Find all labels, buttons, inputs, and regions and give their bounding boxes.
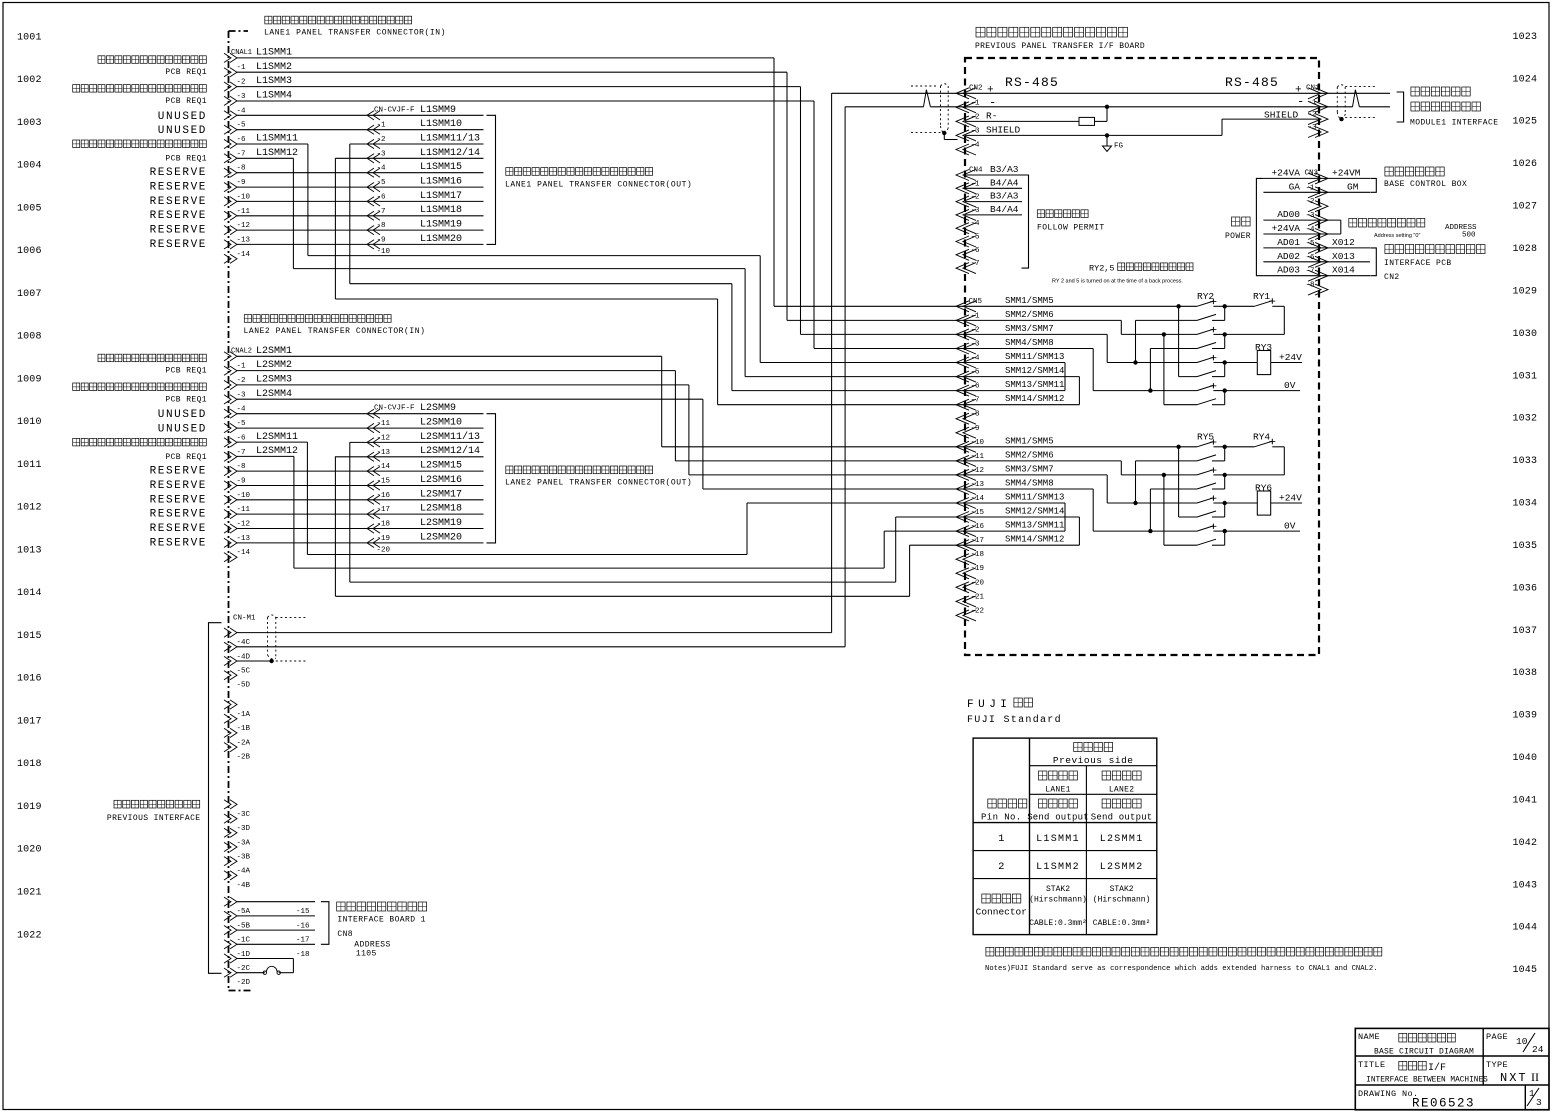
svg-text:-2: -2 bbox=[971, 113, 980, 121]
svg-text:RS-485: RS-485 bbox=[1005, 75, 1059, 90]
svg-text:-3: -3 bbox=[971, 127, 981, 135]
connector CN-M1 pin arrows bbox=[224, 628, 237, 637]
svg-text:I/F: I/F bbox=[1428, 1062, 1446, 1074]
CN3 left wires +24VA GA AD00..AD03 bbox=[1263, 177, 1319, 179]
svg-text:-13: -13 bbox=[971, 481, 985, 489]
svg-text:LANE1 PANEL TRANSFER CONNECTOR: LANE1 PANEL TRANSFER CONNECTOR(OUT) bbox=[505, 180, 692, 189]
svg-text:UNUSED: UNUSED bbox=[158, 125, 207, 137]
wire net L1SMM11/13 to CN5-6 bbox=[349, 144, 351, 284]
svg-text:L2SMM1: L2SMM1 bbox=[256, 346, 292, 357]
svg-text:RESERVE: RESERVE bbox=[150, 196, 207, 208]
shield drain junction at CN1 bbox=[1339, 117, 1343, 121]
svg-text:-5: -5 bbox=[1306, 240, 1316, 248]
svg-text:-5: -5 bbox=[971, 234, 981, 242]
svg-text:L2SMM1: L2SMM1 bbox=[1100, 834, 1144, 845]
svg-text:TYPE: TYPE bbox=[1486, 1060, 1508, 1070]
svg-text:RESERVE: RESERVE bbox=[150, 480, 207, 492]
svg-text:X013: X013 bbox=[1332, 251, 1355, 262]
svg-text:SMM4/SMM8: SMM4/SMM8 bbox=[1005, 479, 1054, 489]
svg-text:Previous side: Previous side bbox=[1053, 755, 1134, 766]
svg-text:-22: -22 bbox=[971, 607, 985, 615]
svg-text:INTERFACE BOARD 1: INTERFACE BOARD 1 bbox=[337, 916, 425, 925]
svg-text:-15: -15 bbox=[377, 478, 391, 486]
svg-text:SMM12/SMM14: SMM12/SMM14 bbox=[1005, 366, 1064, 376]
svg-text:-1: -1 bbox=[971, 99, 981, 107]
svg-text:SMM13/SMM11: SMM13/SMM11 bbox=[1005, 521, 1064, 531]
svg-text:-12: -12 bbox=[971, 467, 985, 475]
svg-text:-1: -1 bbox=[237, 64, 247, 72]
svg-text:-14: -14 bbox=[377, 463, 391, 471]
svg-text:-6: -6 bbox=[971, 247, 981, 255]
svg-text:1029: 1029 bbox=[1513, 286, 1538, 297]
svg-text:-14: -14 bbox=[971, 495, 985, 503]
svg-text:-3: -3 bbox=[971, 207, 981, 215]
svg-text:1033: 1033 bbox=[1513, 456, 1538, 467]
svg-text:1024: 1024 bbox=[1513, 74, 1538, 85]
svg-text:L2SMM15: L2SMM15 bbox=[420, 461, 462, 472]
label PREVIOUS INTERFACE (JP) bbox=[114, 800, 121, 808]
label POWER (JP) bbox=[1232, 217, 1240, 226]
wire CN5 -14 to -16 loop bbox=[965, 502, 1065, 504]
lane2 IN title (JP) bbox=[244, 315, 251, 323]
svg-text:CN3: CN3 bbox=[1305, 170, 1319, 178]
table row connector (JP) bbox=[982, 894, 990, 903]
svg-text:SMM12/SMM14: SMM12/SMM14 bbox=[1005, 507, 1064, 517]
svg-text:CN-CVJF-F: CN-CVJF-F bbox=[374, 405, 415, 413]
svg-text:+24VM: +24VM bbox=[1332, 167, 1361, 178]
svg-text:-11: -11 bbox=[237, 208, 251, 216]
wire net L2SMM12/14 to CN5-17 bbox=[334, 456, 336, 596]
svg-text:L1SMM3: L1SMM3 bbox=[256, 76, 292, 87]
svg-text:1041: 1041 bbox=[1513, 796, 1538, 807]
svg-text:1022: 1022 bbox=[17, 930, 42, 941]
svg-text:1034: 1034 bbox=[1513, 499, 1538, 510]
svg-text:1023: 1023 bbox=[1513, 32, 1538, 43]
svg-text:0V: 0V bbox=[1284, 521, 1296, 532]
svg-text:X012: X012 bbox=[1332, 237, 1355, 248]
CN3 right wires X012 X013 X014 bbox=[1319, 247, 1370, 249]
svg-text:L1SMM10: L1SMM10 bbox=[420, 119, 462, 130]
svg-text:TITLE: TITLE bbox=[1358, 1060, 1386, 1070]
svg-text:1018: 1018 bbox=[17, 759, 42, 770]
svg-text:-5: -5 bbox=[237, 420, 247, 428]
svg-text:INTERFACE PCB: INTERFACE PCB bbox=[1384, 259, 1452, 268]
svg-text:1001: 1001 bbox=[17, 32, 42, 43]
connector CN-CVJF-F lane1 pin arrows bbox=[367, 111, 380, 120]
lane2 OUT connector bracket bbox=[487, 414, 496, 543]
lane2 CN-CVJF-F signal wires bbox=[367, 413, 484, 415]
svg-text:(Hirschmann): (Hirschmann) bbox=[1093, 896, 1151, 905]
svg-text:-15: -15 bbox=[971, 509, 985, 517]
wire CN-M1 -2D with coil symbol bbox=[237, 972, 265, 974]
svg-text:PREVIOUS INTERFACE: PREVIOUS INTERFACE bbox=[107, 814, 201, 823]
svg-text:RESERVE: RESERVE bbox=[150, 225, 207, 237]
svg-text:-9: -9 bbox=[971, 425, 980, 433]
table header Send output lane2 (JP) bbox=[1102, 799, 1110, 808]
svg-text:UNUSED: UNUSED bbox=[158, 409, 207, 421]
lane1 OUT connector bracket bbox=[487, 115, 496, 244]
svg-text:PCB REQ1: PCB REQ1 bbox=[165, 453, 207, 462]
wire net L1SMM12 to CN5-5 bbox=[237, 157, 293, 159]
svg-text:1002: 1002 bbox=[17, 75, 42, 86]
svg-text:-2: -2 bbox=[1306, 198, 1315, 206]
svg-text:-4B: -4B bbox=[237, 882, 251, 890]
svg-text:GA: GA bbox=[1289, 181, 1301, 192]
svg-text:1028: 1028 bbox=[1513, 244, 1538, 255]
svg-text:L2SMM11: L2SMM11 bbox=[256, 432, 298, 443]
svg-text:1045: 1045 bbox=[1513, 965, 1538, 976]
svg-text:PAGE: PAGE bbox=[1486, 1032, 1508, 1042]
wire CN-M1 -5C shield drain bbox=[237, 660, 272, 662]
svg-text:-10: -10 bbox=[377, 248, 391, 256]
svg-text:+24V: +24V bbox=[1279, 352, 1302, 363]
svg-text:-8: -8 bbox=[377, 222, 386, 230]
svg-text:LANE2 PANEL TRANSFER CONNECTOR: LANE2 PANEL TRANSFER CONNECTOR(IN) bbox=[244, 327, 426, 336]
svg-text:+24V: +24V bbox=[1279, 493, 1302, 504]
label INTERFACE PCB CN2 (JP) bbox=[1385, 245, 1393, 254]
svg-text:FUJI: FUJI bbox=[967, 699, 1011, 711]
svg-text:MODULE1 INTERFACE: MODULE1 INTERFACE bbox=[1410, 119, 1498, 128]
svg-text:L1SMM18: L1SMM18 bbox=[420, 205, 462, 216]
connector dash-dot boundary line (CNAL1/CNAL2/CN-M1) bbox=[229, 30, 249, 32]
svg-text:10: 10 bbox=[1516, 1036, 1528, 1047]
svg-text:1015: 1015 bbox=[17, 631, 42, 642]
bracket PREVIOUS INTERFACE bbox=[209, 623, 222, 974]
svg-text:-4A: -4A bbox=[237, 868, 251, 876]
svg-text:-10: -10 bbox=[971, 439, 985, 447]
svg-text:B4/A4: B4/A4 bbox=[990, 177, 1019, 188]
svg-text:-7: -7 bbox=[1306, 268, 1315, 276]
svg-text:1004: 1004 bbox=[17, 161, 42, 172]
svg-text:-3A: -3A bbox=[237, 839, 251, 847]
svg-text:L1SMM17: L1SMM17 bbox=[420, 191, 462, 202]
svg-text:-2: -2 bbox=[971, 326, 980, 334]
svg-text:CN4: CN4 bbox=[969, 167, 983, 175]
table header Previous side (JP) bbox=[1074, 743, 1082, 752]
svg-text:1009: 1009 bbox=[17, 374, 42, 385]
svg-text:SMM14/SMM12: SMM14/SMM12 bbox=[1005, 535, 1064, 545]
svg-text:1043: 1043 bbox=[1513, 880, 1538, 891]
svg-text:PREVIOUS PANEL TRANSFER I/F BO: PREVIOUS PANEL TRANSFER I/F BOARD bbox=[975, 42, 1145, 51]
svg-text:L2SMM3: L2SMM3 bbox=[256, 375, 292, 386]
svg-text:-14: -14 bbox=[237, 549, 251, 557]
svg-text:PCB REQ1: PCB REQ1 bbox=[165, 68, 207, 77]
wire net L1SMM3 to CN5-2 bbox=[237, 86, 801, 88]
svg-text:SMM1/SMM5: SMM1/SMM5 bbox=[1005, 436, 1054, 446]
svg-text:1030: 1030 bbox=[1513, 329, 1538, 340]
svg-text:RESERVE: RESERVE bbox=[150, 494, 207, 506]
svg-text:1010: 1010 bbox=[17, 417, 42, 428]
svg-text:+24VA: +24VA bbox=[1271, 167, 1300, 178]
svg-text:1005: 1005 bbox=[17, 203, 42, 214]
svg-text:L1SMM9: L1SMM9 bbox=[420, 105, 456, 116]
svg-text:1008: 1008 bbox=[17, 332, 42, 343]
svg-text:1036: 1036 bbox=[1513, 583, 1538, 594]
svg-text:L2SMM10: L2SMM10 bbox=[420, 418, 462, 429]
svg-text:-1: -1 bbox=[971, 180, 981, 188]
bracket FOLLOW PERMIT bbox=[1022, 175, 1029, 268]
wire net L1SMM12/14 to CN5-7 bbox=[334, 158, 336, 299]
label MODULE1 INTERFACE (JP) bbox=[1411, 87, 1419, 96]
svg-text:L1SMM12: L1SMM12 bbox=[256, 148, 298, 159]
svg-text:1105: 1105 bbox=[356, 950, 377, 959]
lane1 OUT title (JP) bbox=[506, 168, 513, 176]
resistor R (RS-485 termination) bbox=[1079, 117, 1095, 125]
I/F board dashed box bbox=[965, 58, 1319, 655]
svg-text:-8: -8 bbox=[237, 463, 246, 471]
svg-text:FOLLOW PERMIT: FOLLOW PERMIT bbox=[1037, 224, 1105, 233]
svg-text:-4: -4 bbox=[237, 406, 247, 414]
wire CN5 -5 to -7 loop bbox=[965, 376, 1079, 378]
wire net CN-M1 -4D to RS-485 - bbox=[237, 646, 845, 648]
wire RS-485 + (CN2 to CN1) bbox=[832, 92, 1390, 94]
svg-text:-6: -6 bbox=[971, 383, 981, 391]
relay RY2 input wires bbox=[965, 305, 1197, 307]
svg-text:-6: -6 bbox=[1306, 254, 1316, 262]
svg-text:STAK2: STAK2 bbox=[1110, 885, 1134, 894]
svg-text:RY4: RY4 bbox=[1253, 431, 1270, 442]
svg-text:AD02: AD02 bbox=[1277, 251, 1300, 262]
svg-text:CNAL2: CNAL2 bbox=[231, 347, 252, 355]
svg-text:-16: -16 bbox=[377, 492, 391, 500]
svg-text:INTERFACE BETWEEN MACHINES: INTERFACE BETWEEN MACHINES bbox=[1366, 1077, 1488, 1085]
svg-text:RY 2 and 5 is turned on at the: RY 2 and 5 is turned on at the time of a… bbox=[1052, 279, 1183, 285]
svg-text:-2: -2 bbox=[377, 136, 386, 144]
svg-text:-3: -3 bbox=[377, 150, 387, 158]
svg-text:X014: X014 bbox=[1332, 265, 1355, 276]
svg-text:L1SMM12/14: L1SMM12/14 bbox=[420, 147, 480, 159]
svg-text:L2SMM16: L2SMM16 bbox=[420, 475, 462, 486]
svg-text:LANE1: LANE1 bbox=[1045, 786, 1071, 795]
svg-text:L2SMM9: L2SMM9 bbox=[420, 403, 456, 414]
bracket INTERFACE BOARD 1 bbox=[321, 902, 329, 945]
svg-text:-5: -5 bbox=[237, 122, 247, 130]
svg-text:SMM1/SMM5: SMM1/SMM5 bbox=[1005, 296, 1054, 306]
coil symbol on CN-M1 -2D bbox=[263, 971, 266, 974]
wire net L2SMM4 to CN5-13 bbox=[237, 398, 703, 400]
svg-text:-1B: -1B bbox=[237, 725, 251, 733]
svg-text:-19: -19 bbox=[377, 535, 391, 543]
svg-text:Send output: Send output bbox=[1027, 813, 1089, 823]
svg-text:1016: 1016 bbox=[17, 674, 42, 685]
svg-text:-13: -13 bbox=[377, 449, 391, 457]
svg-text:-4: -4 bbox=[1306, 226, 1316, 234]
table header LANE1 (JP) bbox=[1039, 771, 1047, 780]
svg-text:L2SMM2: L2SMM2 bbox=[256, 360, 292, 371]
relay RY5 input wires bbox=[965, 446, 1197, 448]
svg-text:SMM2/SMM6: SMM2/SMM6 bbox=[1005, 310, 1054, 320]
svg-text:STAK2: STAK2 bbox=[1046, 885, 1070, 894]
svg-text:1035: 1035 bbox=[1513, 541, 1538, 552]
svg-text:L2SMM19: L2SMM19 bbox=[420, 518, 462, 529]
FG ground symbol bbox=[1105, 133, 1109, 137]
connector CNAL1 pin arrows bbox=[224, 53, 237, 62]
svg-text:-9: -9 bbox=[237, 179, 246, 187]
address setting jumper AD00-+24VA bbox=[1319, 219, 1341, 221]
svg-text:-7: -7 bbox=[237, 449, 246, 457]
svg-text:R-: R- bbox=[986, 110, 997, 121]
svg-text:-7: -7 bbox=[237, 150, 246, 158]
svg-text:-4: -4 bbox=[971, 220, 981, 228]
svg-text:CABLE:0.3mm²: CABLE:0.3mm² bbox=[1093, 919, 1151, 928]
svg-text:-17: -17 bbox=[377, 506, 391, 514]
svg-text:-5: -5 bbox=[971, 369, 981, 377]
svg-text:RESERVE: RESERVE bbox=[150, 509, 207, 521]
svg-text:-1C: -1C bbox=[237, 937, 251, 945]
svg-text:SHIELD: SHIELD bbox=[986, 125, 1021, 136]
svg-text:L1SMM20: L1SMM20 bbox=[420, 234, 462, 245]
svg-text:-9: -9 bbox=[237, 478, 246, 486]
wire net L2SMM11/13 to CN5-15 bbox=[349, 442, 351, 582]
wire net L1SMM4 to CN5-3 bbox=[237, 100, 814, 102]
table header Send output lane1 (JP) bbox=[1039, 799, 1047, 808]
connector CN5 pin arrows bbox=[956, 301, 976, 312]
svg-text:-5C: -5C bbox=[237, 668, 251, 676]
table header LANE2 (JP) bbox=[1102, 771, 1110, 780]
svg-text:1038: 1038 bbox=[1513, 668, 1538, 679]
svg-text:RESERVE: RESERVE bbox=[150, 523, 207, 535]
svg-text:LANE2: LANE2 bbox=[1109, 786, 1135, 795]
svg-text:Notes)FUJI Standard serve as c: Notes)FUJI Standard serve as corresponde… bbox=[985, 965, 1378, 973]
svg-text:-1: -1 bbox=[377, 122, 387, 130]
svg-text:-16: -16 bbox=[971, 523, 985, 531]
svg-text:-4: -4 bbox=[971, 142, 981, 150]
svg-text:-8: -8 bbox=[971, 411, 980, 419]
svg-text:Send output: Send output bbox=[1091, 813, 1153, 823]
svg-text:L2SMM20: L2SMM20 bbox=[420, 532, 462, 543]
svg-text:RESERVE: RESERVE bbox=[150, 167, 207, 179]
svg-text:-1: -1 bbox=[237, 363, 247, 371]
svg-text:1020: 1020 bbox=[17, 845, 42, 856]
svg-text:L1SMM15: L1SMM15 bbox=[420, 162, 462, 173]
connector CN2 pin arrows bbox=[956, 88, 976, 99]
svg-text:1006: 1006 bbox=[17, 246, 42, 257]
svg-text:ADDRESS: ADDRESS bbox=[354, 940, 390, 949]
svg-text:AD03: AD03 bbox=[1277, 265, 1300, 276]
svg-text:CN1: CN1 bbox=[1306, 85, 1320, 93]
svg-text:UNUSED: UNUSED bbox=[158, 111, 207, 123]
svg-text:2: 2 bbox=[998, 861, 1004, 873]
bracket INTERFACE PCB bbox=[1370, 248, 1376, 276]
wire SHIELD (CN2-3 to CN1-2) bbox=[965, 134, 1222, 136]
svg-text:-7: -7 bbox=[971, 397, 980, 405]
svg-text:L2SMM4: L2SMM4 bbox=[256, 389, 292, 400]
svg-text:Pin No.: Pin No. bbox=[981, 813, 1022, 823]
svg-text:L2SMM18: L2SMM18 bbox=[420, 504, 462, 515]
svg-text:-18: -18 bbox=[296, 951, 310, 959]
svg-text:-1A: -1A bbox=[237, 711, 251, 719]
FUJI standard table grid bbox=[973, 738, 1157, 935]
connector CN1 pin arrows bbox=[1308, 88, 1328, 99]
svg-text:RESERVE: RESERVE bbox=[150, 210, 207, 222]
lane1 CN-CVJF-F signal wires bbox=[367, 114, 484, 116]
svg-text:DRAWING No.: DRAWING No. bbox=[1358, 1089, 1419, 1099]
svg-text:LANE2 PANEL TRANSFER CONNECTOR: LANE2 PANEL TRANSFER CONNECTOR(OUT) bbox=[505, 479, 692, 488]
svg-text:-4: -4 bbox=[971, 355, 981, 363]
title block frame bbox=[1355, 1028, 1549, 1109]
svg-text:-4D: -4D bbox=[237, 653, 251, 661]
wire CN-M1 -2C jumper bbox=[237, 958, 293, 960]
svg-text:Address setting "0": Address setting "0" bbox=[1374, 233, 1420, 239]
svg-text:-5: -5 bbox=[377, 179, 387, 187]
svg-text:1040: 1040 bbox=[1513, 753, 1538, 764]
wire net L2SMM1 to CN5-10 bbox=[237, 355, 662, 357]
connector CNAL2 pin arrows bbox=[224, 352, 237, 361]
svg-text:L1SMM11: L1SMM11 bbox=[256, 134, 298, 145]
svg-text:-2: -2 bbox=[971, 194, 980, 202]
wire net L2SMM2 to CN5-11 bbox=[237, 370, 675, 372]
svg-text:24: 24 bbox=[1532, 1044, 1544, 1055]
svg-text:-2: -2 bbox=[237, 79, 246, 87]
svg-text:-2: -2 bbox=[1308, 111, 1317, 119]
svg-text:L2SMM2: L2SMM2 bbox=[1100, 862, 1144, 873]
svg-text:CABLE:0.3mm²: CABLE:0.3mm² bbox=[1029, 919, 1087, 928]
svg-text:FG: FG bbox=[1114, 143, 1124, 151]
svg-text:-13: -13 bbox=[237, 236, 251, 244]
svg-text:-20: -20 bbox=[377, 546, 391, 554]
svg-text:-2D: -2D bbox=[237, 979, 251, 987]
svg-text:NAME: NAME bbox=[1358, 1032, 1380, 1042]
lane1 left annotation labels bbox=[98, 56, 105, 64]
label address setting 0 (JP) bbox=[1349, 218, 1357, 227]
wire net L2SMM3 to CN5-12 bbox=[237, 384, 689, 386]
svg-text:1037: 1037 bbox=[1513, 626, 1538, 637]
svg-text:1014: 1014 bbox=[17, 588, 42, 599]
svg-text:1031: 1031 bbox=[1513, 371, 1538, 382]
lane2 wires CNAL to CN-CVJF-F bbox=[237, 413, 367, 415]
CN4 follow permit wires bbox=[965, 174, 1022, 176]
svg-text:L2SMM12: L2SMM12 bbox=[256, 446, 298, 457]
svg-text:BASE CIRCUIT DIAGRAM: BASE CIRCUIT DIAGRAM bbox=[1374, 1048, 1474, 1057]
svg-text:L1SMM2: L1SMM2 bbox=[1036, 862, 1080, 873]
svg-text:AD01: AD01 bbox=[1277, 237, 1300, 248]
svg-text:-5D: -5D bbox=[237, 682, 251, 690]
svg-text:-11: -11 bbox=[237, 506, 251, 514]
svg-text:SMM3/SMM7: SMM3/SMM7 bbox=[1005, 324, 1054, 334]
svg-text:NXT: NXT bbox=[1500, 1071, 1528, 1085]
notes line (JP) bbox=[986, 947, 994, 956]
svg-text:-19: -19 bbox=[971, 565, 985, 573]
svg-text:FUJI Standard: FUJI Standard bbox=[967, 714, 1062, 726]
svg-text:B3/A3: B3/A3 bbox=[990, 164, 1019, 175]
svg-text:-10: -10 bbox=[237, 492, 251, 500]
wire RS-485 - (CN2 to CN1) bbox=[845, 106, 923, 108]
svg-text:RY1: RY1 bbox=[1253, 291, 1270, 302]
svg-text:POWER: POWER bbox=[1225, 232, 1251, 241]
svg-text:1039: 1039 bbox=[1513, 711, 1538, 722]
svg-text:SMM11/SMM13: SMM11/SMM13 bbox=[1005, 352, 1064, 362]
svg-text:-2C: -2C bbox=[237, 965, 251, 973]
svg-text:1017: 1017 bbox=[17, 717, 42, 728]
svg-text:-6: -6 bbox=[237, 136, 247, 144]
svg-text:-4C: -4C bbox=[237, 639, 251, 647]
svg-text:-17: -17 bbox=[971, 537, 985, 545]
svg-text:SMM3/SMM7: SMM3/SMM7 bbox=[1005, 464, 1054, 474]
label INTERFACE BOARD 1 (JP) bbox=[337, 902, 345, 911]
svg-text:-3: -3 bbox=[1308, 124, 1318, 132]
svg-text:II: II bbox=[1531, 1070, 1539, 1084]
svg-text:1026: 1026 bbox=[1513, 159, 1538, 170]
svg-text:B4/A4: B4/A4 bbox=[990, 204, 1019, 215]
svg-text:L1SMM19: L1SMM19 bbox=[420, 220, 462, 231]
lane2 OUT title (JP) bbox=[506, 466, 513, 474]
svg-text:1021: 1021 bbox=[17, 888, 42, 899]
svg-text:-2: -2 bbox=[237, 377, 246, 385]
svg-text:L2SMM11/13: L2SMM11/13 bbox=[420, 431, 480, 443]
CN3 right wires +24VM GM bbox=[1319, 177, 1370, 179]
svg-text:1013: 1013 bbox=[17, 545, 42, 556]
svg-text:RESERVE: RESERVE bbox=[150, 182, 207, 194]
